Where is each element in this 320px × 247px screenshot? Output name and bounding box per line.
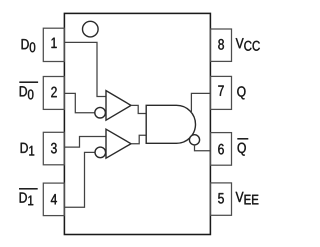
pin 3 box bbox=[43, 132, 64, 165]
pin-1 index circle bbox=[83, 21, 99, 37]
pin 6 number bbox=[218, 144, 224, 155]
wire U1b output to AND gate bottom input bbox=[131, 135, 146, 143]
wire AND output Q to pin 7 bbox=[191, 93, 210, 112]
output bubble (Q-bar) bbox=[189, 135, 199, 145]
pin 4 box bbox=[43, 183, 64, 216]
pin 4 number bbox=[51, 194, 57, 204]
pin 3 number bbox=[51, 143, 57, 154]
input bubble of U1b bbox=[95, 147, 106, 158]
label D1 bbox=[21, 143, 35, 156]
pin 5 box bbox=[210, 183, 231, 215]
input bubble of U1a bbox=[95, 107, 106, 118]
label Q-bar bbox=[237, 138, 248, 156]
wire pin2 to buffer U1a inverting bubble bbox=[64, 93, 95, 112]
wire pin3 to buffer U1b noninverting input bbox=[64, 137, 105, 148]
label D0-bar bbox=[19, 81, 38, 99]
IC body U1 bbox=[64, 13, 210, 234]
pin 7 number bbox=[218, 85, 223, 95]
buffer U1b (differential input) bbox=[106, 129, 131, 158]
label D1-bar bbox=[19, 188, 38, 205]
pin 8 number bbox=[218, 39, 224, 50]
pin 1 box bbox=[43, 28, 64, 61]
buffer U1a (differential input) bbox=[106, 91, 131, 121]
label VCC bbox=[236, 38, 260, 51]
label VEE bbox=[236, 192, 259, 205]
pin 2 box bbox=[43, 77, 64, 110]
wire pin1 to buffer U1a noninverting input bbox=[64, 42, 105, 96]
pin 7 box bbox=[210, 76, 231, 109]
pin 5 number bbox=[218, 193, 224, 203]
wire U1a output to AND gate top input bbox=[131, 105, 146, 113]
AND gate U1c bbox=[146, 105, 195, 143]
label D0 bbox=[22, 39, 36, 52]
label Q bbox=[237, 86, 245, 99]
pin 1 number bbox=[51, 38, 56, 48]
wire bubble to pin 6 (Q-bar) bbox=[195, 145, 211, 151]
wire pin4 to buffer U1b inverting bubble bbox=[64, 152, 95, 207]
pin 8 box bbox=[210, 29, 231, 61]
pin 6 box bbox=[210, 133, 231, 166]
pin 2 number bbox=[51, 87, 56, 97]
